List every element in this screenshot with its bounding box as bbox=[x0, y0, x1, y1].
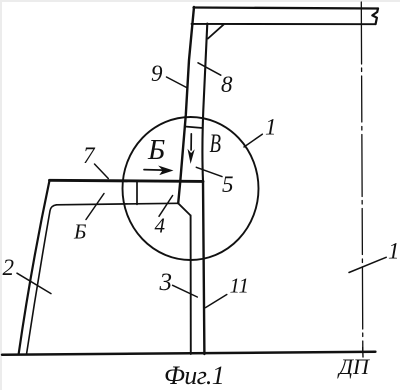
leader 5 bbox=[196, 167, 222, 176]
leader 8 bbox=[198, 63, 221, 75]
arrow Б right shaft bbox=[144, 169, 163, 172]
svg-text:11: 11 bbox=[230, 274, 249, 298]
svg-text:Б: Б bbox=[73, 220, 86, 244]
joint divider 4 bbox=[136, 182, 138, 205]
leader 1 right bbox=[349, 257, 386, 272]
arrow Б head bbox=[158, 166, 173, 176]
leader 4 bbox=[159, 196, 173, 217]
trapezoid 2 inner edge bbox=[27, 205, 57, 354]
svg-text:4: 4 bbox=[155, 214, 166, 238]
leader 3 bbox=[173, 285, 198, 297]
svg-text:2: 2 bbox=[3, 255, 15, 280]
column 8 left edge bbox=[178, 7, 194, 203]
svg-text:9: 9 bbox=[151, 61, 163, 86]
lower column 11 right edge bbox=[203, 181, 204, 354]
beam top chord bbox=[194, 8, 379, 9]
platform top line 7 bbox=[50, 180, 204, 181]
leader 1 circle bbox=[244, 134, 262, 147]
joint line 5 bbox=[185, 127, 203, 129]
svg-text:8: 8 bbox=[221, 72, 233, 97]
beam break symbol bbox=[372, 9, 378, 25]
leader 2 bbox=[17, 273, 51, 293]
centerline end tick bbox=[362, 348, 364, 358]
svg-text:ДП: ДП bbox=[337, 354, 370, 379]
platform inner line 6 bbox=[57, 203, 179, 205]
detail circle 1 bbox=[123, 117, 259, 260]
svg-text:Б: Б bbox=[147, 134, 165, 166]
leader 9 bbox=[167, 77, 187, 88]
centerline DP dash-dot bbox=[361, 2, 363, 352]
svg-text:В: В bbox=[210, 129, 222, 158]
leader 7 bbox=[95, 164, 109, 179]
svg-text:1: 1 bbox=[388, 239, 400, 264]
column 8 right edge bbox=[202, 24, 207, 182]
lower column 3 left edge bbox=[190, 216, 192, 355]
lower column chamfer bbox=[178, 203, 190, 215]
svg-text:7: 7 bbox=[83, 143, 96, 168]
arrow B head bbox=[188, 149, 195, 164]
gusset brace bbox=[208, 24, 224, 38]
leader 11 bbox=[206, 295, 227, 308]
svg-text:5: 5 bbox=[222, 172, 234, 197]
svg-text:Фиг.1: Фиг.1 bbox=[164, 361, 224, 390]
beam bottom chord bbox=[192, 23, 376, 25]
trapezoid 2 outer edge bbox=[19, 181, 50, 355]
arrow B down shaft bbox=[190, 134, 192, 150]
svg-text:1: 1 bbox=[265, 114, 277, 139]
svg-text:3: 3 bbox=[159, 269, 173, 296]
leader Б bbox=[86, 194, 104, 220]
ground line bbox=[2, 352, 375, 355]
